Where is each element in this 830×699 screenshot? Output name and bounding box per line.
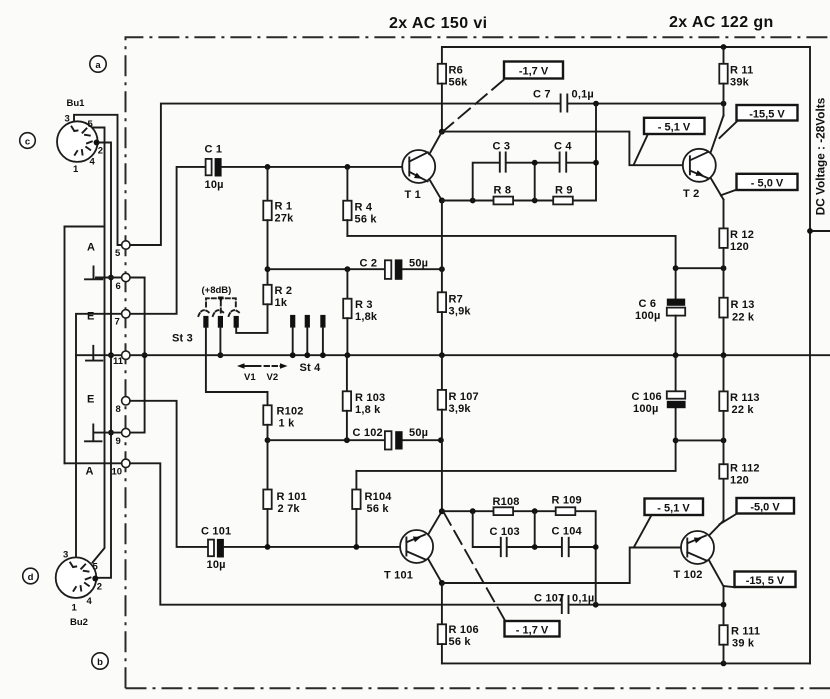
value 56k (R104): [367, 503, 390, 515]
value 0,1µ (C7): [572, 89, 594, 101]
ground symbol (terminal 6 row): [85, 267, 102, 280]
wire C6 column to R12/R13 junction: [676, 267, 724, 269]
pin number 3 (Bu2): [63, 550, 68, 561]
terminal 10: [112, 459, 131, 477]
junction bottom rail / R111: [721, 661, 727, 667]
svg-text:A: A: [86, 466, 94, 478]
pointer to T2 collector: [720, 121, 738, 138]
arrow V1 (solid left): [237, 363, 261, 368]
label R 12: [730, 229, 754, 241]
transistor T101: [400, 511, 442, 583]
label E (terminal 7 row): [87, 311, 95, 323]
svg-text:4: 4: [90, 157, 96, 168]
value 1,8k (R3): [355, 311, 378, 323]
wire C103/C104 row: [473, 511, 596, 547]
svg-text:R 111: R 111: [731, 626, 760, 638]
svg-text:R 106: R 106: [449, 624, 479, 636]
resistor R107: [438, 355, 446, 511]
label A (terminal 5 row): [87, 242, 95, 254]
point label d (circled): [23, 568, 39, 584]
capacitor C1 (electrolytic): [206, 158, 222, 176]
value 39k (R111): [732, 638, 755, 650]
svg-text:C 6: C 6: [639, 298, 657, 310]
terminal 7: [115, 310, 131, 328]
svg-text:1: 1: [73, 164, 79, 175]
svg-text:5: 5: [93, 562, 99, 573]
transistor T2: [683, 116, 724, 200]
pin number 1 (Bu2): [72, 603, 78, 614]
svg-text:b: b: [97, 657, 103, 668]
resistor R112: [719, 440, 727, 520]
voltage box -15,5 V (top): [737, 105, 798, 121]
junction C102 / R107 column: [438, 437, 444, 443]
junction C7 line / R11 column: [721, 101, 727, 107]
capacitor C6 (electrolytic): [667, 299, 685, 356]
junction C2 / emitter column: [439, 266, 445, 272]
resistor R113: [719, 355, 727, 440]
transistor T102: [681, 521, 724, 587]
junction emitter row / C3-C4 mid branch: [532, 198, 538, 204]
voltage box -5,0 V (bottom): [737, 498, 795, 514]
label C 4: [554, 141, 572, 153]
voltage box -1,7V (bottom): [505, 621, 560, 637]
svg-text:R 113: R 113: [730, 392, 760, 404]
svg-text:3,9k: 3,9k: [449, 306, 472, 318]
svg-text:5: 5: [115, 248, 121, 259]
svg-text:22 k: 22 k: [732, 404, 755, 416]
svg-text:E: E: [87, 394, 95, 406]
wire R106 column: [441, 583, 443, 624]
resistor R2: [236, 285, 271, 333]
pin number 4 (Bu2): [87, 596, 93, 607]
label T 1: [405, 189, 422, 201]
pointer to T102 emitter: [720, 514, 738, 525]
label R 103: [355, 392, 385, 404]
svg-text:2 7k: 2 7k: [278, 503, 301, 515]
right rail label DC Voltage -28Volts: [814, 97, 828, 215]
label R 11: [730, 65, 753, 77]
voltage box -5,0 V (top): [737, 174, 798, 190]
resistor R9: [553, 197, 573, 205]
junction top rail / R11: [721, 44, 727, 50]
value 1,8k (R103): [355, 404, 381, 416]
capacitor C107: [562, 596, 569, 613]
svg-text:- 5,1 V: - 5,1 V: [657, 503, 690, 515]
label R104: [365, 491, 393, 503]
svg-text:C 1: C 1: [205, 144, 223, 156]
svg-text:-15, 5 V: -15, 5 V: [746, 575, 785, 587]
svg-text:DC Voltage : -28Volts: DC Voltage : -28Volts: [814, 97, 828, 215]
junction C6 / midline: [673, 352, 679, 358]
junction T1 emitter node: [439, 198, 445, 204]
resistor R11: [719, 47, 727, 104]
label R108: [493, 496, 520, 508]
label R 101: [277, 491, 307, 503]
svg-text:39 k: 39 k: [732, 638, 755, 650]
transistor T1: [402, 132, 442, 201]
wire C7 right to R11 column: [568, 103, 723, 105]
wire Bu1 pin2 ground bus down to Bu2 pin2: [97, 143, 112, 578]
wire T1 collector to T2 base: [442, 132, 689, 166]
point label b (circled): [92, 653, 108, 669]
junction R13 / midline: [721, 352, 727, 358]
label R 112: [730, 463, 760, 475]
resistor R104: [352, 471, 360, 547]
svg-text:R 1: R 1: [275, 201, 293, 213]
svg-text:3,9k: 3,9k: [449, 403, 472, 415]
resistor R13: [719, 268, 727, 355]
junction C4 row / x596 column: [593, 160, 599, 166]
svg-text:R104: R104: [365, 491, 393, 503]
wire stub y=226.5 joining pin5 line: [65, 226, 105, 228]
svg-text:C 7: C 7: [533, 89, 551, 101]
resistor R3: [343, 269, 351, 355]
capacitor C2 (electrolytic): [385, 259, 403, 279]
junction C107 line / x595.7 column: [593, 602, 599, 608]
svg-text:T 2: T 2: [683, 188, 700, 200]
svg-text:100µ: 100µ: [633, 403, 659, 415]
ground symbol (midline row 11): [86, 346, 102, 361]
wire R8/R9 row (T1 emitter network): [442, 104, 596, 201]
pointer to T2 emitter: [721, 190, 737, 196]
label R 1: [275, 201, 293, 213]
junction C102 / R103 bottom: [344, 437, 350, 443]
svg-text:R 9: R 9: [555, 185, 573, 197]
wire C102 row: [268, 439, 441, 441]
label T 101: [384, 570, 413, 582]
label R 4: [355, 202, 373, 214]
pointer dashed to T1 collector: [444, 80, 504, 131]
svg-text:22 k: 22 k: [732, 312, 755, 324]
voltage box -5,1 V (top): [644, 118, 705, 134]
label C 107: [534, 593, 564, 605]
resistor R101: [263, 490, 271, 547]
svg-text:C 101: C 101: [201, 526, 231, 538]
wire far-left vertical to terminal 10 row: [64, 227, 66, 464]
capacitor C7: [561, 95, 568, 112]
label C 101: [201, 526, 231, 538]
title label 2x AC 150 vi: [389, 15, 488, 32]
pin number 2 (Bu2): [97, 582, 102, 593]
junction C107 line / R111 column: [721, 602, 727, 608]
svg-text:A: A: [87, 242, 95, 254]
switch St3 contact pins with wipers (+8dB): [198, 297, 239, 328]
junction ground bus / midline row 11: [108, 352, 114, 358]
svg-text:120: 120: [730, 475, 749, 487]
label C 3: [493, 141, 511, 153]
value 1 k (R102): [279, 418, 296, 430]
label R 107: [449, 391, 479, 403]
plug St4 contact pins: [290, 315, 326, 358]
svg-text:0,1µ: 0,1µ: [572, 89, 594, 101]
value 3,9k (R7): [449, 306, 472, 318]
label R 8: [494, 185, 512, 197]
junction ground bus / terminal 9 row: [108, 430, 114, 436]
junction C7 line / x596 column: [593, 101, 599, 107]
label C 7: [533, 89, 551, 101]
svg-text:R108: R108: [493, 496, 520, 508]
power rail top (-28V) with right-side drop: [442, 47, 810, 663]
svg-text:27k: 27k: [275, 213, 295, 225]
label Bu1: [67, 98, 86, 109]
value 22k (R13): [732, 312, 755, 324]
svg-text:6: 6: [116, 281, 121, 292]
point label a (circled): [90, 56, 106, 72]
ground symbol (terminal 9 row): [85, 425, 102, 442]
svg-text:- 1,7 V: - 1,7 V: [516, 625, 549, 637]
terminal 6: [116, 273, 131, 292]
resistor R108: [494, 507, 514, 515]
label A (terminal 10 row): [86, 466, 94, 478]
pin number 5 (Bu1): [88, 119, 94, 130]
midline 0V rail (row 11): [76, 354, 830, 356]
svg-text:50µ: 50µ: [409, 258, 428, 270]
svg-text:4: 4: [87, 596, 93, 607]
resistor R102: [263, 405, 271, 489]
junction base line / R104 bottom: [354, 544, 360, 550]
svg-text:St 3: St 3: [172, 333, 193, 345]
label C 103: [490, 526, 520, 538]
capacitor C101 (electrolytic): [208, 539, 224, 558]
svg-text:3: 3: [65, 114, 70, 125]
wire C1 to T1 base: [222, 166, 409, 168]
wire T1 emitter column down through R7: [441, 201, 443, 293]
value 27k (R1): [275, 213, 295, 225]
junction base line / R4 top: [345, 164, 351, 170]
wire terminal 8 to C101: [130, 401, 208, 547]
wire terminal 10 row: [65, 463, 561, 604]
svg-text:- 5,0 V: - 5,0 V: [751, 178, 784, 190]
wire ground riser x=144.6 (terminals 6-11-9): [95, 278, 145, 433]
value 39k (R11): [730, 77, 750, 89]
pointer to T102 base: [634, 515, 652, 547]
value 27k (R101): [278, 503, 301, 515]
voltage box -5,1 V (bottom): [645, 499, 704, 516]
chassis boundary dash-dot frame: [126, 37, 830, 688]
resistor R4: [343, 167, 351, 236]
label C 106: [632, 391, 662, 403]
resistor R6: [438, 64, 446, 132]
resistor R111: [719, 586, 727, 663]
resistor R7: [438, 292, 446, 355]
voltage box -1,7 V (top): [504, 62, 563, 79]
wire St3 pin2 to midline: [218, 328, 224, 358]
label R 13: [731, 299, 755, 311]
svg-text:V1: V1: [244, 372, 256, 383]
svg-text:V2: V2: [267, 372, 279, 383]
label St 3: [172, 333, 193, 345]
wire C106 column to R113/R112 junction: [676, 439, 724, 441]
capacitor C104: [562, 538, 569, 556]
junction base line / R1 top: [265, 164, 271, 170]
label C 102: [353, 427, 383, 439]
value 56k (R4): [355, 214, 378, 226]
svg-text:1,8 k: 1,8 k: [355, 404, 381, 416]
junction C106 column / R113-R112 link: [673, 438, 679, 444]
junction R7 / midline: [439, 352, 445, 358]
svg-text:2x AC 150 vi: 2x AC 150 vi: [389, 15, 488, 32]
svg-text:R102: R102: [277, 406, 304, 418]
svg-text:100µ: 100µ: [635, 310, 661, 322]
point label c (circled): [20, 133, 36, 149]
junction T101 collector node: [439, 508, 445, 514]
svg-text:8: 8: [116, 404, 121, 415]
value 50µ (C2): [409, 258, 428, 270]
label C 6: [639, 298, 657, 310]
svg-text:C 106: C 106: [632, 391, 662, 403]
pin number 4 (Bu1): [90, 157, 96, 168]
svg-text:Bu2: Bu2: [70, 617, 88, 628]
svg-text:d: d: [28, 572, 34, 583]
wire R108/R109 row (T101 collector network): [442, 511, 596, 605]
svg-text:R 101: R 101: [277, 491, 307, 503]
svg-text:56k: 56k: [449, 77, 469, 89]
resistor R106: [438, 624, 446, 663]
connector Bu2 (DIN socket): [56, 557, 99, 598]
label R 111: [731, 626, 760, 638]
junction collector row / C103 branch: [470, 508, 476, 514]
label R6: [449, 65, 463, 77]
svg-text:2: 2: [98, 146, 103, 157]
arrow V2 (dashed right): [265, 363, 288, 368]
label T 102: [674, 569, 703, 581]
value 56k (R6): [449, 77, 469, 89]
svg-text:R 107: R 107: [449, 391, 479, 403]
wire Bu1 pin3 to terminal 5: [74, 115, 122, 245]
svg-text:T 101: T 101: [384, 570, 413, 582]
label R 9: [555, 185, 573, 197]
wire C3/C4 row verticals: [473, 163, 596, 201]
label C 1: [205, 144, 223, 156]
junction riser / midline: [142, 352, 148, 358]
terminal 8: [116, 397, 131, 415]
label C 104: [552, 526, 583, 538]
svg-text:56 k: 56 k: [367, 503, 390, 515]
svg-text:1 k: 1 k: [279, 418, 296, 430]
resistor R8: [494, 197, 514, 205]
value 3,9k (R107): [449, 403, 472, 415]
svg-text:2x AC 122 gn: 2x AC 122 gn: [669, 14, 774, 31]
label St 4: [300, 362, 322, 374]
value 0,1µ (C107): [572, 593, 594, 605]
wire C2 row left: [268, 268, 385, 270]
wire T2 collector to C7 node: [723, 104, 725, 116]
wire R4 bottom to C6 top (y=236 line): [347, 236, 675, 299]
svg-text:C 2: C 2: [360, 258, 378, 270]
svg-text:11: 11: [113, 356, 124, 367]
connector Bu1 (DIN socket): [57, 121, 100, 162]
capacitor C3: [500, 153, 506, 172]
wire feedback line C106 to R104 top: [356, 408, 675, 471]
pin number 5 (Bu2): [93, 562, 99, 573]
title label 2x AC 122 gn: [669, 14, 774, 31]
svg-text:56 k: 56 k: [449, 636, 472, 648]
pin number 3 (Bu1): [65, 114, 70, 125]
wire terminal 5 to feedback line (C7 rail): [122, 104, 560, 245]
wire terminal 7 to C1: [130, 167, 205, 314]
label R 2: [275, 285, 293, 297]
junction emitter row / C3 branch: [470, 198, 476, 204]
svg-text:9: 9: [116, 436, 121, 447]
svg-text:R 13: R 13: [731, 299, 755, 311]
label C 2: [360, 258, 378, 270]
svg-text:- 5,1 V: - 5,1 V: [658, 122, 691, 134]
svg-text:R 103: R 103: [355, 392, 385, 404]
value 10µ (C1): [205, 179, 224, 191]
label (+8dB): [202, 285, 232, 296]
svg-text:R 12: R 12: [730, 229, 754, 241]
svg-text:120: 120: [730, 241, 749, 253]
wire C101 to T101 base: [224, 546, 406, 548]
svg-text:56 k: 56 k: [355, 214, 378, 226]
svg-text:R 4: R 4: [355, 202, 373, 214]
value 56k (R106): [449, 636, 472, 648]
wire C2 row right: [403, 268, 442, 270]
value 1k (R2): [275, 297, 288, 309]
svg-text:R 112: R 112: [730, 463, 760, 475]
label V2: [267, 372, 279, 383]
svg-text:10µ: 10µ: [205, 179, 224, 191]
svg-text:5: 5: [88, 119, 94, 130]
pin number 1 (Bu1): [73, 164, 79, 175]
label R 106: [449, 624, 479, 636]
value 100µ (C106): [633, 403, 659, 415]
resistor R109: [556, 507, 576, 515]
output stub at right edge: [807, 228, 830, 234]
svg-text:C 4: C 4: [554, 141, 572, 153]
junction C103-C104 mid: [532, 544, 538, 550]
svg-text:1k: 1k: [275, 297, 288, 309]
junction R113 bottom / R112 top: [721, 438, 727, 444]
svg-text:R7: R7: [449, 294, 463, 306]
junction C104 row / x595.7 column: [593, 544, 599, 550]
svg-text:10: 10: [112, 467, 123, 478]
svg-text:T 1: T 1: [405, 189, 422, 201]
value 120 (R12): [730, 241, 749, 253]
svg-text:a: a: [95, 60, 101, 71]
label R 3: [355, 299, 373, 311]
svg-text:C 3: C 3: [493, 141, 511, 153]
value 22k (R113): [732, 404, 755, 416]
wire T101 emitter to T102 base: [442, 548, 687, 584]
svg-text:R6: R6: [449, 65, 463, 77]
value 10µ (C101): [207, 559, 226, 571]
junction R12 bottom / R13 top: [721, 265, 727, 271]
svg-text:T 102: T 102: [674, 569, 703, 581]
svg-text:2: 2: [97, 582, 102, 593]
svg-text:7: 7: [115, 317, 120, 328]
terminal 5: [115, 241, 130, 259]
svg-text:(+8dB): (+8dB): [202, 285, 232, 296]
capacitor C102 (electrolytic): [385, 431, 403, 449]
wire T2 emitter to R12: [723, 200, 725, 229]
svg-text:-5,0 V: -5,0 V: [750, 502, 780, 514]
junction ground bus / terminal 6 row: [108, 275, 114, 281]
svg-text:R 3: R 3: [355, 299, 373, 311]
svg-text:R 109: R 109: [552, 495, 582, 507]
junction base line / R101 bottom: [265, 544, 271, 550]
label R 109: [552, 495, 582, 507]
junction C3-C4 mid: [532, 160, 538, 166]
junction collector row / mid branch: [532, 508, 538, 514]
label R7: [449, 294, 463, 306]
label E (terminal 8 row): [87, 394, 95, 406]
resistor R12: [719, 228, 727, 268]
terminal 11: [113, 351, 130, 367]
value 120 (R112): [730, 475, 749, 487]
capacitor C106 (electrolytic): [667, 355, 686, 408]
svg-text:R 8: R 8: [494, 185, 512, 197]
